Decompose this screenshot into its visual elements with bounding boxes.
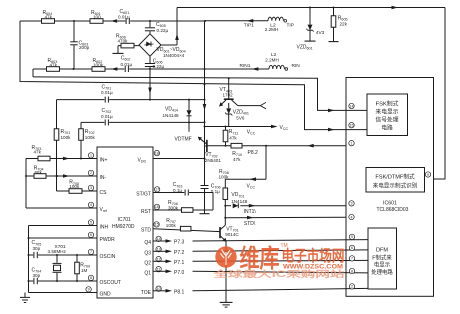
- diode VD414 1N4148: [163, 100, 192, 123]
- DTMF processing box: [368, 228, 397, 289]
- wire STD line to VT701: [153, 229, 220, 232]
- wire IN- line: [25, 174, 97, 178]
- wire OSCOUT line: [29, 280, 98, 282]
- wire GND line: [29, 292, 98, 294]
- wire INH PWDR rail: [28, 226, 98, 293]
- inductor L2 TIP 2.2MH: [244, 17, 294, 32]
- zener diode VZD401 5V6: [225, 103, 249, 127]
- wire into FSK box arrows: [328, 109, 335, 132]
- ground: [20, 293, 30, 303]
- wire CS line: [57, 190, 98, 192]
- wire top supply rail: [177, 6, 445, 179]
- wire Vref line: [26, 159, 97, 209]
- resistor R701: [54, 100, 71, 191]
- transistor VT702 2N5401: [198, 137, 221, 164]
- IC601 right pin circle: [425, 172, 430, 177]
- resistor R702: [79, 122, 96, 159]
- FSK/DTMF discriminator box: [366, 168, 425, 193]
- resistor R602: [72, 58, 105, 71]
- wire main vertical node VDTMF-V1: [203, 21, 207, 185]
- wire TOE to P8.1: [153, 288, 368, 295]
- wire Q3 to P7.2: [153, 250, 368, 256]
- transistor VT701 9014C: [220, 206, 240, 307]
- resistor R605 22k: [329, 7, 348, 42]
- capacitor C602: [121, 56, 133, 73]
- resistor R711 47k: [223, 126, 238, 146]
- resistor R706 300k: [168, 200, 193, 212]
- wire Q4 to P7.3: [153, 239, 368, 245]
- capacitor C705 30p: [32, 240, 42, 258]
- resistor R705 100k: [69, 180, 82, 194]
- diode VD701 1N4148: [231, 192, 248, 208]
- resistor R708 100k: [219, 169, 230, 206]
- zener diode VZD601 4V3: [297, 7, 325, 51]
- capacitor C605: [145, 20, 169, 34]
- wire R708 branch: [225, 146, 266, 190]
- wire Q1 to P7.0: [153, 270, 368, 276]
- wire TIP line: [204, 19, 268, 23]
- resistor R606: [113, 33, 140, 53]
- wire VDD line: [153, 158, 205, 160]
- wire arrow left on top rail: [111, 19, 118, 23]
- resistor R703 47k: [32, 145, 51, 161]
- wire node B horizontal y122.4: [81, 121, 206, 123]
- wire Q2 to P7.1: [153, 260, 368, 266]
- resistor R710 47k: [231, 143, 258, 162]
- svg-text:全球最大IC采购网站: 全球最大IC采购网站: [212, 268, 345, 279]
- transistor VT403 1702: [219, 77, 238, 106]
- wire STD line: [224, 216, 346, 227]
- capacitor C706 0.1u: [200, 183, 221, 213]
- watermark text weiku: [212, 243, 345, 279]
- wire ST/GT line: [153, 192, 213, 194]
- wire C703-R706 rail: [212, 193, 214, 211]
- wire Vcc rail y126.5: [205, 125, 289, 136]
- capacitor C703 0.1u: [173, 182, 189, 195]
- inductor L3 RIN 2.2MH: [240, 52, 301, 71]
- wire top rail y21 with left drop: [20, 21, 367, 130]
- capacitor C601: [118, 9, 130, 24]
- capacitor C704 30p: [32, 267, 42, 284]
- capacitor C701: [101, 84, 113, 102]
- resistor R704 68k: [34, 166, 46, 179]
- wire bridge right to top supply rail: [161, 8, 179, 46]
- resistor R603: [47, 58, 60, 71]
- capacitor C702: [101, 108, 113, 125]
- FSK signal box: [367, 94, 408, 136]
- wire node A horizontal y99.6: [57, 99, 206, 101]
- capacitor C603: [70, 20, 89, 69]
- wire P8.2 line: [207, 144, 346, 148]
- capacitor C606: [145, 56, 165, 99]
- watermark logo circle: [215, 246, 236, 267]
- wire R603 row to RIN: [33, 69, 367, 110]
- wire IN+ line: [26, 157, 97, 161]
- diode bridge VD601-VD604: [139, 34, 186, 58]
- wire RST line: [153, 209, 213, 211]
- wire OSCIN line: [29, 254, 98, 256]
- resistor R601: [90, 10, 103, 24]
- IC601 left pin circles: [349, 103, 355, 289]
- svg-text:电子市场网: 电子市场网: [282, 246, 345, 265]
- resistor R707 100k: [166, 218, 191, 231]
- op-amp U1 IC701 HM9270D box: [97, 147, 153, 298]
- wire VT403 collector open arrow: [238, 102, 266, 108]
- wire INT1 line: [224, 204, 346, 215]
- wire arrow left on RIN row: [111, 67, 118, 71]
- IC701 right pin circles: [154, 150, 161, 291]
- crystal X701 3.58MHz: [48, 244, 67, 281]
- IC701 left pin circles: [86, 153, 94, 292]
- node VDTMF: [175, 122, 192, 142]
- resistor R604: [42, 10, 55, 24]
- resistor R709 1M: [75, 255, 90, 281]
- op-amp U2 IC601 TCL868CID03 box: [346, 78, 434, 297]
- IC701 pin labels inside: [100, 158, 152, 298]
